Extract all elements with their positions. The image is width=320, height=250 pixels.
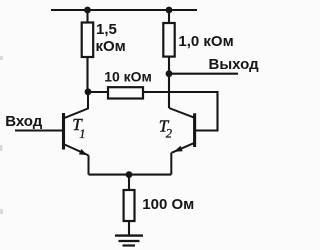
wire: R2 bottom down through output node to T2 collector [168, 57, 170, 109]
node A: T1 collector junction [85, 88, 92, 95]
resistor R4 10 kOm (feedback) [108, 87, 143, 98]
wire: bus dot to R3 top [128, 175, 130, 190]
ground [115, 236, 143, 246]
wire: R1 bottom to T1 collector node [86, 57, 88, 92]
svg-text:10 кОм: 10 кОм [104, 68, 152, 84]
node: rail-R1 junction [84, 7, 91, 14]
svg-text:кОм: кОм [96, 38, 126, 55]
transistor Q2 (T2) [169, 108, 195, 175]
svg-text:2: 2 [166, 126, 172, 140]
scan smudges [0, 56, 3, 214]
transistor Q1 (T1) [64, 92, 89, 175]
wire: emitter bus [89, 174, 172, 176]
node: output junction [166, 70, 173, 77]
resistor R3 100 Om [124, 190, 135, 221]
svg-text:1,0 кОм: 1,0 кОм [178, 33, 233, 50]
wire: node A to R4 left [88, 91, 108, 93]
svg-text:Выход: Выход [209, 56, 260, 73]
wire: rail to R1 top [86, 10, 88, 23]
svg-text:1,5: 1,5 [96, 21, 117, 38]
wire: R3 bottom to ground [128, 221, 130, 236]
svg-text:1: 1 [79, 127, 85, 141]
wire: input lead [15, 129, 62, 131]
svg-text:100 Ом: 100 Ом [142, 196, 194, 213]
resistor R2 1,0 kOm [163, 23, 174, 57]
wire: R4 right to feedback corner and down to T2 base [143, 92, 218, 131]
node: emitter bus junction [126, 171, 133, 178]
svg-text:Вход: Вход [5, 113, 43, 130]
resistor R1 1,5 kOm [82, 23, 94, 58]
wire: top supply rail [51, 9, 197, 11]
wire: rail to R2 top [168, 10, 170, 23]
wire: output line [169, 73, 238, 75]
node: rail-R2 junction [166, 7, 173, 14]
